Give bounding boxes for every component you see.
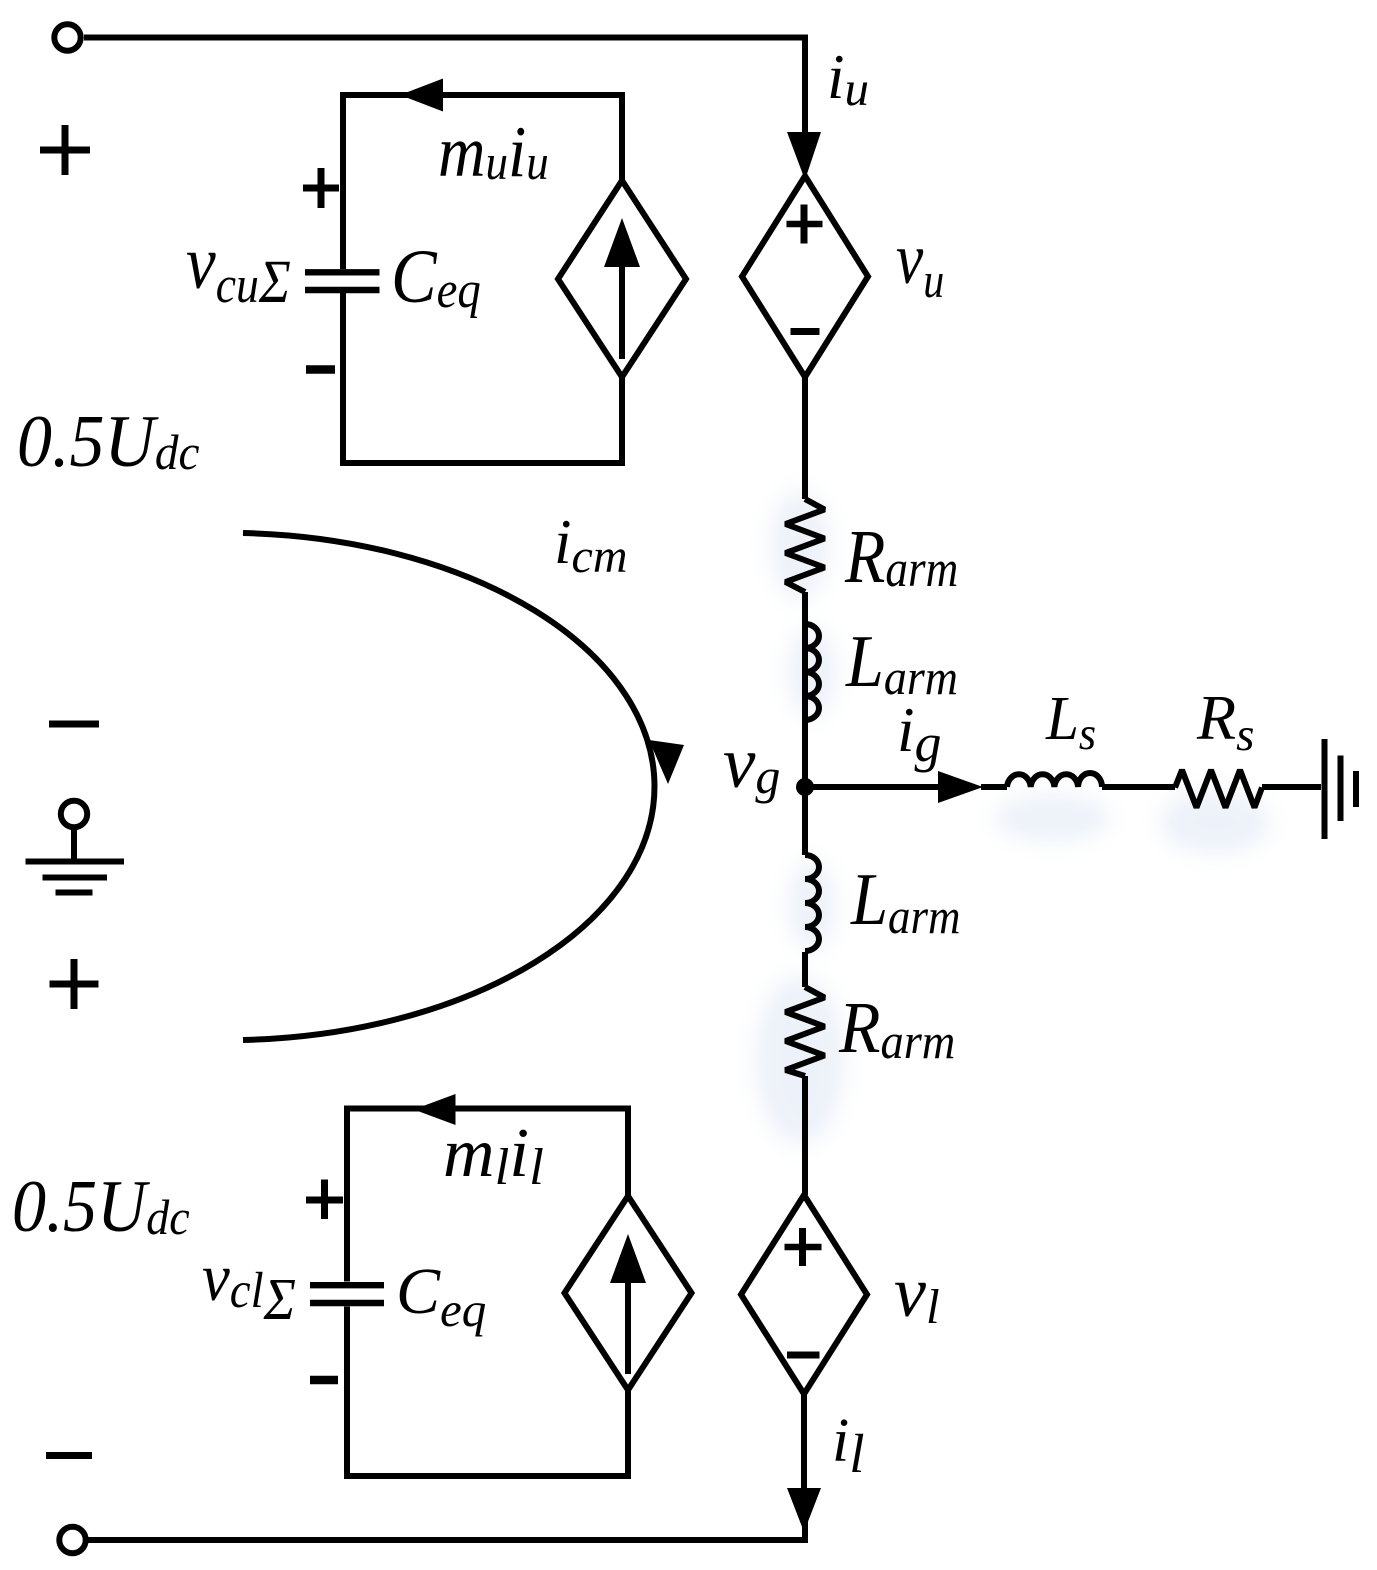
svg-text:ig: ig bbox=[897, 695, 942, 773]
svg-text:vcuΣ: vcuΣ bbox=[186, 221, 291, 316]
svg-text:Rarm: Rarm bbox=[844, 516, 958, 599]
svg-text:Ls: Ls bbox=[1045, 684, 1096, 759]
svg-text:vclΣ: vclΣ bbox=[202, 1241, 296, 1333]
svg-text:Rs: Rs bbox=[1196, 682, 1254, 761]
svg-text:0.5Udc: 0.5Udc bbox=[17, 400, 200, 482]
svg-text:vg: vg bbox=[723, 722, 780, 804]
svg-text:icm: icm bbox=[554, 507, 627, 583]
svg-text:0.5Udc: 0.5Udc bbox=[12, 1166, 190, 1247]
svg-text:mlil: mlil bbox=[443, 1115, 544, 1196]
svg-text:iu: iu bbox=[827, 42, 869, 116]
svg-text:Ceq: Ceq bbox=[391, 235, 481, 319]
svg-text:Larm: Larm bbox=[850, 859, 960, 945]
svg-text:vu: vu bbox=[896, 218, 944, 308]
svg-text:vl: vl bbox=[894, 1252, 940, 1334]
svg-text:Larm: Larm bbox=[845, 621, 958, 705]
svg-text:Rarm: Rarm bbox=[838, 988, 955, 1070]
svg-text:muiu: muiu bbox=[438, 112, 549, 193]
svg-text:Ceq: Ceq bbox=[396, 1255, 486, 1337]
svg-text:il: il bbox=[832, 1407, 865, 1484]
